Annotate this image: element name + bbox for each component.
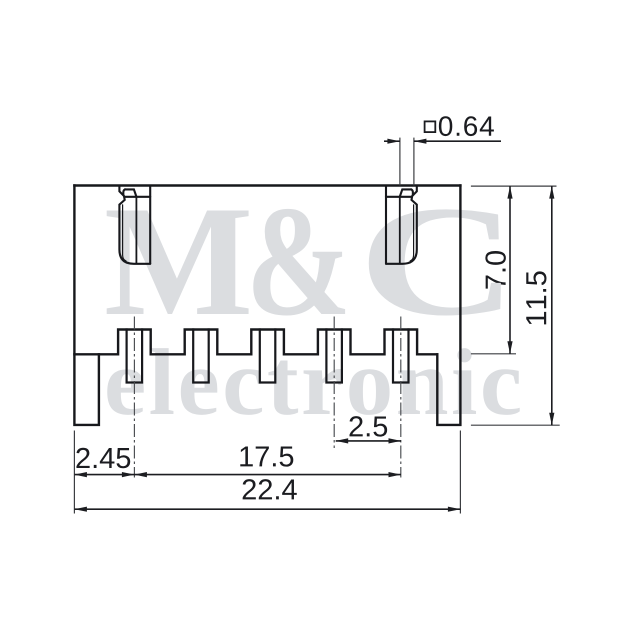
label 11.5 rotated — [526, 271, 546, 324]
body bottom profile with pin notches — [74, 330, 437, 355]
ext: body bottom right — [471, 353, 516, 355]
pin 2 — [193, 330, 209, 383]
label 17.5 — [240, 446, 293, 466]
center line pin 4 — [333, 317, 335, 449]
dimension lines with arrows — [74, 139, 554, 512]
dim 2.45 / 17.5 — [74, 474, 401, 476]
dim 22.4 — [74, 508, 460, 510]
extension lines (thin) — [74, 138, 559, 514]
dim 2.5 — [336, 440, 401, 442]
ext: 0.64 left (pin edge) — [399, 138, 401, 186]
left contact cavity — [119, 186, 150, 264]
ext: body left edge down — [73, 431, 75, 514]
dim 0.64 — [384, 140, 400, 142]
watermark &amp; — [253, 209, 345, 316]
label 22.4 — [243, 479, 297, 499]
ext: body top right — [471, 185, 557, 187]
ext: 0.64 right (pin edge) — [413, 138, 415, 186]
dim 11.5 — [551, 186, 553, 425]
label 2.45 — [76, 448, 130, 469]
ext: body right edge down — [459, 431, 461, 514]
right contact cavity — [386, 186, 417, 264]
dim 7.0 — [509, 186, 511, 354]
label 2.5 — [350, 416, 388, 437]
watermark M — [107, 211, 249, 314]
ext: leg bottom right — [471, 424, 560, 426]
pin 4 — [326, 330, 342, 383]
label 7.0 rotated — [485, 251, 506, 289]
connector body outline — [74, 184, 460, 186]
square symbol for 0.64 — [425, 121, 436, 132]
pin 1 — [127, 330, 143, 383]
center line pin 5 — [400, 317, 402, 478]
watermark electronic — [107, 348, 519, 415]
pin 3 — [260, 330, 276, 383]
pin 5 — [393, 330, 409, 383]
label 0.64 — [439, 116, 494, 136]
center line pin 1 — [133, 317, 135, 478]
watermark C — [369, 209, 501, 315]
